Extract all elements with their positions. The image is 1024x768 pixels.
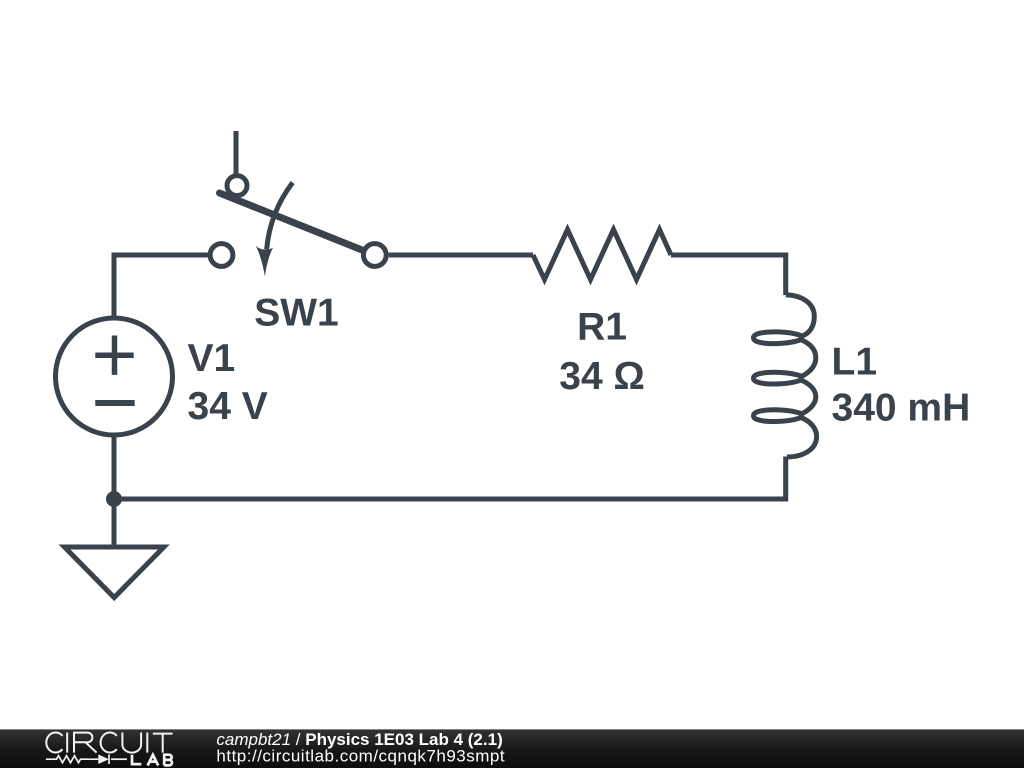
switch SW1 (210, 131, 386, 276)
wire: top-left horizontal (switch left terminal to left rail) (114, 253, 208, 258)
wire: right rail upper segment (corner to L1 top) (783, 253, 788, 296)
node: junction of V1 minus, bottom rail and ground (106, 491, 122, 507)
switch SW1: motion arc (267, 183, 293, 250)
svg-text:34 Ω: 34 Ω (559, 355, 644, 398)
wire: ground stub (112, 499, 117, 547)
svg-text:L1: L1 (832, 341, 878, 384)
wire: bottom rail (112, 497, 786, 502)
switch SW1: top throw stub (234, 131, 239, 174)
CircuitLab logo: CIRCUIT wordmark (46, 733, 172, 753)
switch SW1: pivot circle (227, 176, 247, 196)
svg-text:http://circuitlab.com/cqnqk7h9: http://circuitlab.com/cqnqk7h93smpt (216, 747, 505, 766)
switch SW1: right terminal circle (363, 244, 386, 267)
wire: left rail lower segment (V1 minus to node) (112, 435, 117, 499)
svg-text:34 V: 34 V (188, 385, 268, 428)
wire: right rail lower segment (L1 bottom) (783, 457, 788, 502)
CircuitLab logo: LAB (132, 755, 172, 766)
switch SW1: arrowhead (256, 246, 274, 276)
CircuitLab logo: diode triangle (98, 754, 109, 764)
svg-text:R1: R1 (577, 306, 627, 349)
footer bar (0, 729, 1024, 768)
ground (65, 547, 164, 598)
wire: switch right terminal to R1 (389, 253, 533, 258)
wire: R1 to top-right corner (671, 253, 788, 258)
svg-text:V1: V1 (188, 337, 236, 380)
inductor L1 (753, 295, 816, 457)
voltage source V1 (56, 318, 173, 435)
resistor R1 (533, 230, 671, 280)
CircuitLab logo: schematic strokes (resistor + diode) (46, 754, 127, 764)
switch SW1: lever (220, 193, 363, 250)
switch SW1: left terminal circle (210, 244, 233, 267)
svg-text:SW1: SW1 (254, 292, 339, 335)
svg-text:340 mH: 340 mH (832, 387, 971, 430)
wire: left rail upper segment (112, 253, 117, 319)
